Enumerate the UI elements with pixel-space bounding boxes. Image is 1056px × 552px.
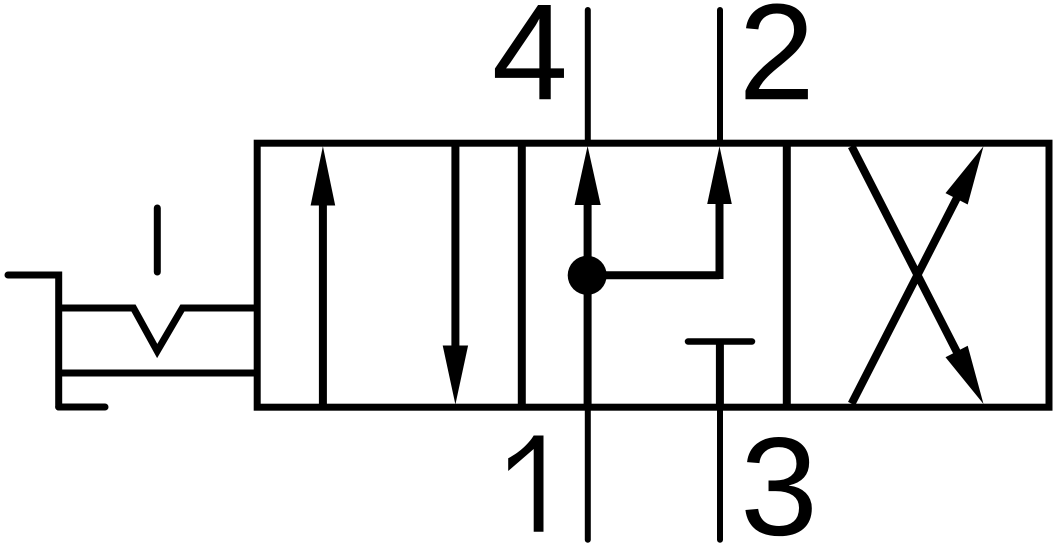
port 1 external line bbox=[585, 407, 591, 540]
middle position: port 2 branch riser bbox=[716, 202, 724, 279]
right position: top-right arrowhead bbox=[946, 146, 984, 204]
svg-text:3: 3 bbox=[740, 408, 818, 552]
hand lever: bottom foot bbox=[59, 404, 105, 411]
middle position: port 3 blocked symbol bar bbox=[688, 338, 752, 345]
left position: up-flow arrowhead bbox=[311, 146, 336, 205]
right position: crossed flow line (bottom-left to top-right) shaft bbox=[852, 188, 962, 404]
hand lever: handle and pivot bar bbox=[8, 275, 59, 407]
position divider line middle/right bbox=[783, 143, 791, 408]
right position: bottom-right arrowhead bbox=[946, 346, 984, 404]
middle position: port 2 arrowhead bbox=[707, 146, 732, 204]
position divider line left/middle bbox=[518, 143, 526, 408]
detent pin bbox=[154, 208, 161, 272]
svg-text:2: 2 bbox=[739, 0, 815, 129]
detent bottom rail bbox=[59, 370, 257, 377]
valve body frame (3-position envelope) bbox=[257, 143, 1049, 407]
port 4 external line bbox=[585, 10, 591, 143]
port 1 label (custom Arial-style glyph) bbox=[508, 436, 543, 532]
middle position: port 3 stub bbox=[716, 344, 724, 407]
right position: crossed flow line (top-left to bottom-right) shaft bbox=[852, 146, 962, 362]
port 3 external line bbox=[717, 407, 723, 540]
middle position: port 4 arrowhead bbox=[575, 146, 601, 205]
port 2 external line bbox=[717, 10, 723, 143]
middle position: port 1 to port 4 flow line bbox=[584, 202, 592, 407]
left position: up-flow arrow shaft bbox=[319, 202, 327, 404]
detent top rail with notch bbox=[59, 308, 257, 351]
left position: down-flow arrowhead bbox=[443, 346, 468, 405]
left position: down-flow arrow shaft bbox=[451, 147, 459, 351]
middle position: junction dot bbox=[568, 256, 607, 295]
svg-text:4: 4 bbox=[492, 0, 568, 129]
middle position: dot to port 2 horizontal branch bbox=[587, 271, 719, 279]
